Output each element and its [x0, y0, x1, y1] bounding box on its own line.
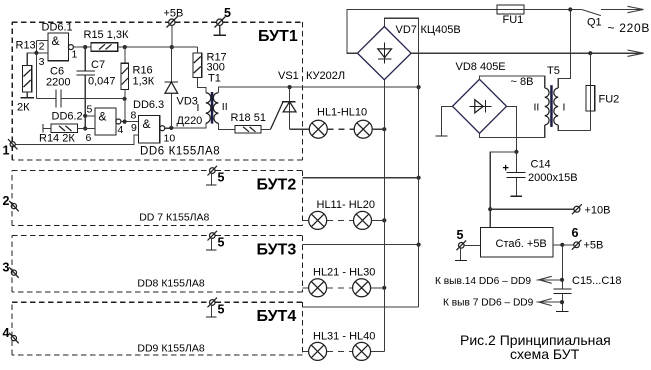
caption: [460, 332, 611, 362]
svg-text:II: II: [222, 101, 228, 113]
transformer T5: [534, 65, 566, 127]
svg-text:2: 2: [39, 41, 45, 53]
wire T5-I bottom to FU2: [558, 125, 590, 130]
svg-text:I: I: [197, 102, 200, 114]
bridge rectifier VD8: [453, 61, 534, 133]
wire T1 winding II top to anode bus: [218, 85, 420, 93]
svg-text:КЦ405В: КЦ405В: [421, 24, 461, 36]
wire VD8 top to T5-II: [480, 76, 545, 88]
wire 220V line bottom with arrow: [411, 50, 643, 56]
svg-text:5: 5: [218, 171, 225, 185]
svg-text:DD9 К155ЛА8: DD9 К155ЛА8: [137, 343, 204, 355]
arrow to pin 7: [443, 298, 562, 309]
wire VD8 bottom to T5-II bottom: [480, 125, 545, 137]
transformer T1: [197, 73, 228, 124]
svg-text:БУТ4: БУТ4: [257, 308, 297, 325]
terminal 5 of BUT2: [206, 166, 225, 185]
svg-text:5: 5: [224, 6, 231, 20]
wire T1 winding II bottom to R18: [218, 123, 235, 129]
thyristor VS1: [271, 70, 299, 129]
lamps HL1-HL10: [309, 107, 386, 139]
terminal 1: [3, 135, 139, 158]
svg-text:DD8 К155ЛА8: DD8 К155ЛА8: [137, 278, 204, 290]
+10V terminal: [490, 204, 610, 216]
svg-text:VD3: VD3: [177, 96, 198, 108]
wire 220V line top: [347, 10, 497, 54]
+5V terminal: [164, 8, 184, 48]
resistor R16: [121, 47, 155, 122]
svg-text:4: 4: [3, 326, 10, 340]
svg-text:5: 5: [87, 104, 93, 116]
wire VD8 plus output: [507, 106, 519, 154]
svg-text:FU1: FU1: [503, 14, 524, 26]
svg-text:&: &: [143, 117, 151, 131]
resistor R17: [193, 47, 227, 93]
svg-text:HL31 - HL40: HL31 - HL40: [313, 331, 375, 343]
svg-text:+5В: +5В: [164, 8, 184, 20]
svg-text:R13: R13: [16, 40, 36, 52]
wire BUT4 to anode bus: [303, 306, 419, 308]
stabilizer block: [481, 227, 553, 257]
svg-text:К выв 7 DD6 – DD9: К выв 7 DD6 – DD9: [443, 298, 534, 309]
svg-text:2200: 2200: [46, 77, 70, 89]
svg-text:T5: T5: [547, 65, 560, 77]
svg-text:R15 1,3К: R15 1,3К: [84, 29, 130, 41]
terminal 2: [3, 194, 19, 211]
svg-text:9: 9: [131, 122, 137, 134]
wire and arrow ~220V top: [601, 6, 644, 12]
svg-text:10: 10: [164, 133, 176, 145]
node: DD6.1 out / C7 / R15: [83, 45, 87, 49]
svg-text:+5В: +5В: [584, 240, 604, 252]
capacitors C15...C18: [553, 245, 621, 312]
diode VD3: [165, 47, 203, 128]
wire: pin10 node to T1 winding I: [169, 123, 206, 130]
svg-text:5: 5: [218, 236, 225, 250]
svg-text:VS1: VS1: [278, 70, 299, 82]
lamps HL21-HL30: [303, 267, 387, 297]
svg-text:~ 8В: ~ 8В: [511, 76, 534, 88]
anode bus: [384, 18, 418, 307]
switch Q1: [570, 10, 601, 29]
wire BUT2 to anode bus: [303, 176, 421, 180]
wire BUT3 to anode bus: [303, 243, 421, 247]
BUT2 dashed box: [12, 170, 303, 225]
svg-text:8: 8: [131, 110, 137, 122]
op-amp gate DD6.1: [34, 22, 91, 69]
cathode bus (lamp returns): [383, 80, 385, 352]
resistor R13: [16, 40, 37, 114]
terminal 3: [3, 261, 19, 278]
lamps HL11-HL20: [303, 199, 387, 229]
resistor R18: [231, 112, 271, 133]
fuse FU1: [497, 5, 572, 26]
terminal 4: [3, 326, 19, 343]
svg-text:DD 7 К155ЛА8: DD 7 К155ЛА8: [139, 212, 209, 224]
resistor R14: [39, 124, 95, 144]
svg-text:II: II: [534, 102, 540, 114]
svg-text:~ 220В: ~ 220В: [608, 21, 651, 35]
BUT4 dashed box: [12, 302, 303, 355]
svg-text:T1: T1: [208, 73, 221, 85]
svg-text:DD6.2: DD6.2: [52, 111, 83, 123]
fuse FU2: [586, 53, 619, 130]
svg-text:DD6.1: DD6.1: [42, 22, 73, 34]
svg-text:С15...С18: С15...С18: [572, 275, 622, 287]
svg-text:FU2: FU2: [599, 94, 620, 106]
svg-text:1,3К: 1,3К: [133, 76, 155, 88]
svg-text:Стаб. +5В: Стаб. +5В: [496, 238, 547, 250]
capacitor C14: [503, 152, 578, 196]
BUT3 dashed box: [12, 235, 303, 292]
svg-text:6: 6: [572, 226, 579, 240]
capacitor C6: [36, 53, 126, 107]
svg-text:DD6 К155ЛА8: DD6 К155ЛА8: [140, 146, 220, 158]
BUT1 dashed box: [12, 22, 302, 160]
svg-text:2: 2: [3, 194, 10, 208]
svg-text:HL21 - HL30: HL21 - HL30: [313, 267, 375, 279]
svg-text:1: 1: [3, 144, 10, 158]
svg-text:схема БУТ: схема БУТ: [510, 346, 580, 362]
svg-text:1: 1: [72, 49, 78, 61]
capacitor C7: [76, 47, 115, 131]
svg-text:HL1-HL10: HL1-HL10: [317, 107, 367, 119]
svg-text:БУТ2: БУТ2: [257, 177, 297, 194]
resistor R15: [84, 29, 174, 51]
wire T5-I top to 220V: [558, 10, 570, 89]
svg-text:HL11- HL20: HL11- HL20: [317, 199, 376, 211]
svg-text:5: 5: [457, 228, 464, 242]
svg-text:Q1: Q1: [587, 17, 602, 29]
terminal 5 of BUT3: [206, 231, 225, 250]
svg-text:VD8 405Е: VD8 405Е: [456, 61, 506, 73]
svg-text:3: 3: [3, 261, 10, 275]
svg-text:+10В: +10В: [585, 205, 611, 217]
svg-text:3: 3: [39, 56, 45, 68]
svg-text:4: 4: [118, 124, 124, 136]
svg-text:&: &: [52, 34, 60, 48]
svg-text:2К: 2К: [17, 102, 30, 114]
bridge rectifier VD7: [358, 24, 461, 80]
svg-text:R14 2К: R14 2К: [39, 133, 75, 145]
svg-text:R18 51: R18 51: [231, 112, 266, 124]
svg-text:БУТ1: БУТ1: [258, 28, 298, 45]
svg-text:VD7: VD7: [396, 24, 417, 36]
svg-text:КУ202Л: КУ202Л: [306, 70, 345, 82]
svg-text:2000х15В: 2000х15В: [528, 172, 578, 184]
terminal 5 of stab with ground: [455, 228, 481, 261]
lamps HL31-HL40: [303, 331, 385, 361]
arrow to pin 14: [435, 276, 562, 287]
terminal 5 of BUT1 with ground: [213, 6, 231, 35]
svg-text:0,047: 0,047: [88, 76, 116, 88]
svg-text:БУТ3: БУТ3: [257, 242, 297, 259]
op-amp gate DD6.3: [131, 99, 176, 145]
svg-text:I: I: [563, 102, 566, 114]
wire DC feed to stab: [488, 152, 516, 228]
svg-text:&: &: [99, 110, 107, 124]
wire +5V rail to R17: [172, 46, 197, 48]
ground of VD8 left: [436, 106, 453, 136]
svg-text:6: 6: [86, 132, 92, 144]
svg-text:5: 5: [218, 303, 225, 317]
terminal 5 of BUT4: [206, 298, 225, 317]
wire VS1 to lamp HL1: [290, 128, 310, 130]
svg-text:C14: C14: [531, 159, 551, 171]
svg-text:DD6.3: DD6.3: [133, 99, 164, 111]
svg-text:Д220: Д220: [177, 115, 203, 127]
svg-text:C7: C7: [91, 59, 105, 71]
terminal 6 +5V output: [553, 226, 603, 252]
svg-text:К выв.14 DD6 – DD9: К выв.14 DD6 – DD9: [435, 276, 531, 287]
op-amp gate DD6.2: [52, 104, 139, 145]
